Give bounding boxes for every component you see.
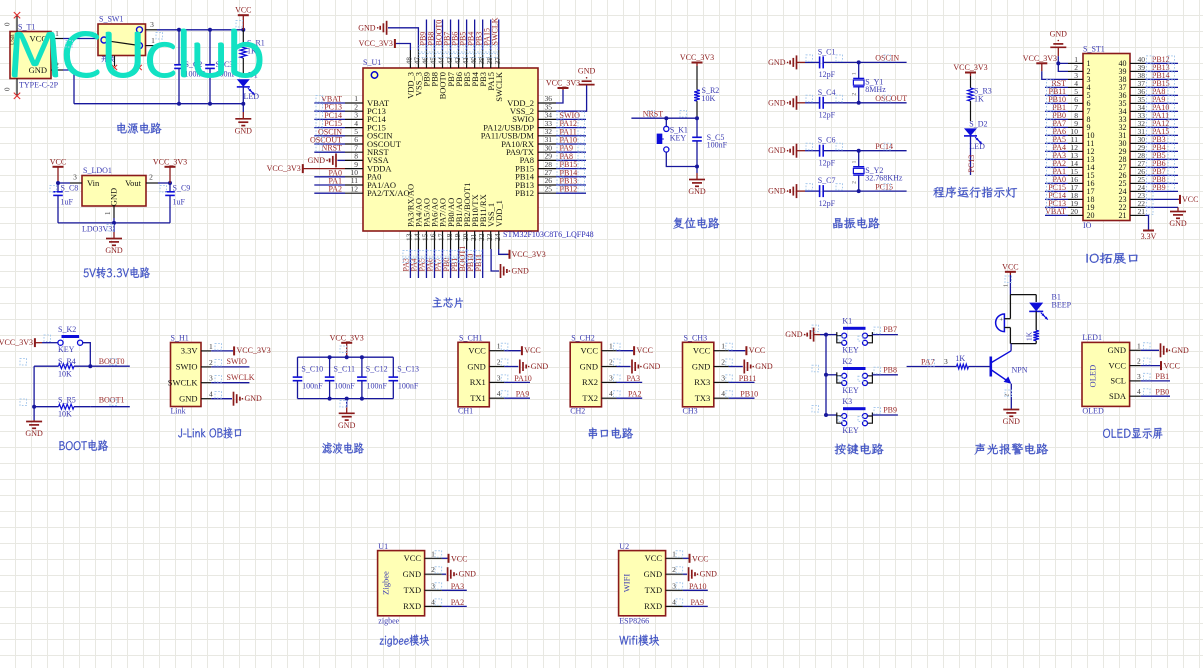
- svg-text:VCC_3V3: VCC_3V3: [153, 157, 187, 166]
- net label PA2: [442, 605, 467, 607]
- svg-text:GND: GND: [692, 361, 710, 371]
- U1 pin 47 VSS_3: [417, 50, 419, 68]
- svg-text:VCC_3V3: VCC_3V3: [546, 79, 580, 88]
- resistor S_R2 10K: [696, 66, 698, 90]
- T1 shield pin bottom with no-ERC cross: [16, 79, 18, 96]
- svg-text:GND: GND: [105, 246, 123, 255]
- MCU U1 STM32F103C8T6 body: [363, 68, 538, 231]
- svg-text:KEY: KEY: [842, 386, 859, 395]
- U1 pin 10 PA0: [345, 176, 363, 178]
- svg-text:GND: GND: [785, 330, 803, 339]
- svg-text:1K: 1K: [955, 354, 965, 363]
- svg-text:VCC_3V3: VCC_3V3: [359, 39, 393, 48]
- svg-text:NPN: NPN: [1012, 365, 1028, 374]
- svg-text:GND: GND: [1169, 219, 1187, 228]
- svg-text:S_LDO1: S_LDO1: [83, 166, 112, 175]
- power GND at H1 pin4: [211, 398, 232, 400]
- net label PB14 (ST1 pin 38): [1145, 78, 1178, 80]
- svg-text:S_C8: S_C8: [61, 184, 79, 193]
- svg-text:KEY: KEY: [58, 345, 75, 354]
- U1 pin 34 SWIO: [538, 118, 556, 120]
- svg-text:SWIO: SWIO: [227, 357, 248, 366]
- svg-text:21: 21: [1119, 211, 1127, 220]
- ST1 pin 27 stub: [1130, 166, 1145, 168]
- top rail filter: [298, 356, 394, 358]
- svg-text:1: 1: [431, 549, 435, 558]
- U1 pin 30 PA9/TX: [538, 151, 556, 153]
- ST1 pin 4 stub: [1068, 86, 1083, 88]
- U1 pin 37 SWCLK: [498, 50, 500, 68]
- svg-text:LDO3V3: LDO3V3: [82, 225, 112, 234]
- svg-text:PB10: PB10: [740, 390, 758, 399]
- svg-text:VCC: VCC: [692, 554, 708, 563]
- push button S_K2 KEY: [42, 342, 58, 344]
- svg-text:3: 3: [497, 373, 501, 382]
- svg-text:GND: GND: [467, 361, 485, 371]
- ST1 pin 15 stub: [1068, 174, 1083, 176]
- module U2 body: [619, 551, 666, 616]
- display LED1 OLED body: [1082, 342, 1130, 406]
- svg-text:CH2: CH2: [570, 406, 585, 415]
- net label PB14 (pin 27): [556, 176, 586, 178]
- svg-text:24: 24: [493, 233, 502, 241]
- svg-text:S_CH2: S_CH2: [571, 333, 595, 342]
- svg-text:1: 1: [1004, 284, 1010, 287]
- svg-text:3: 3: [1137, 372, 1141, 381]
- wire T1 GND down to bottom rail: [63, 70, 74, 104]
- net label PB1: [1141, 380, 1170, 382]
- net label PB9: [872, 414, 898, 416]
- net label PB7 (pin 43): [450, 20, 452, 51]
- svg-text:SWCLK: SWCLK: [227, 373, 255, 382]
- net label PA3: [617, 381, 643, 383]
- U1 pin 20 PB2/BOOT1: [466, 231, 468, 249]
- net label PA15 (pin 38): [490, 20, 492, 51]
- net label PB6 (ST1 pin 27): [1145, 166, 1178, 168]
- net label NRST wire: [631, 117, 697, 119]
- U1 pin 48 VDD_3: [409, 50, 411, 68]
- net stub OSCIN (pin 5): [314, 135, 345, 137]
- svg-text:PA9: PA9: [691, 598, 705, 607]
- ST1 pin 7 stub: [1068, 110, 1083, 112]
- svg-text:2: 2: [852, 93, 858, 96]
- svg-text:SWCLK: SWCLK: [494, 71, 504, 102]
- svg-text:10K: 10K: [58, 409, 72, 418]
- svg-text:SDA: SDA: [1109, 391, 1127, 401]
- svg-text:BEEP: BEEP: [1052, 300, 1072, 309]
- resistor 1K inside B1: [1035, 311, 1037, 330]
- net label OSCIN: [859, 61, 907, 63]
- push button K3 KEY: [826, 414, 837, 416]
- svg-text:PA10: PA10: [514, 374, 532, 383]
- svg-text:GND: GND: [578, 67, 596, 76]
- svg-text:4: 4: [721, 389, 725, 398]
- net label PB13 (ST1 pin 39): [1145, 70, 1178, 72]
- svg-text:S_C7: S_C7: [818, 176, 836, 185]
- ground GND for S_C1: [796, 55, 798, 69]
- svg-text:VCC_3V3: VCC_3V3: [330, 333, 364, 342]
- resistor S_R1 1K: [242, 30, 244, 44]
- net label PB4 (ST1 pin 29): [1145, 150, 1178, 152]
- bottom rail of LDO circuit: [58, 222, 170, 224]
- LDO regulator S_LDO1: [82, 176, 146, 207]
- net label SWIO (pin 34): [556, 118, 586, 120]
- svg-text:12pF: 12pF: [819, 70, 836, 79]
- switch S_SW1: [98, 24, 146, 56]
- svg-text:1: 1: [151, 36, 155, 45]
- svg-text:PB9: PB9: [1152, 183, 1166, 192]
- svg-text:12: 12: [351, 184, 359, 193]
- power VCC_3V3 filter: [341, 342, 352, 344]
- ST1 pin 5 stub: [1068, 94, 1083, 96]
- U1 pin 11 PA1/AO: [345, 184, 363, 186]
- svg-text:PB1: PB1: [1155, 372, 1169, 381]
- svg-text:S_C13: S_C13: [397, 364, 419, 373]
- U1 pin 33 PA12/USB/DP: [538, 127, 556, 129]
- U1 pin 38 PA15: [490, 50, 492, 68]
- svg-text:GND: GND: [755, 362, 773, 371]
- svg-text:4: 4: [672, 597, 676, 606]
- power GND at CH1: [504, 366, 518, 368]
- ground GND reset: [696, 167, 698, 174]
- header S_H1 J-Link: [171, 343, 202, 407]
- svg-text:1: 1: [1137, 341, 1141, 350]
- svg-text:100nF: 100nF: [707, 140, 728, 149]
- speaker symbol of B1: [996, 314, 1005, 332]
- svg-text:S_SW1: S_SW1: [99, 15, 123, 24]
- net label PA12 (pin 33): [556, 127, 586, 129]
- net stub PC13 (pin 2): [314, 110, 345, 112]
- net label SWIO: [211, 366, 249, 368]
- svg-text:IO: IO: [1083, 221, 1092, 230]
- svg-text:PA10: PA10: [689, 582, 707, 591]
- MCUclub logo: [12, 29, 263, 79]
- capacitor S_C2 100nF: [178, 30, 180, 65]
- svg-text:2: 2: [672, 565, 676, 574]
- U1 pin 32 PA11/USB/DM: [538, 135, 556, 137]
- resistor 1K base: [957, 364, 969, 369]
- svg-text:100nF: 100nF: [334, 381, 355, 390]
- svg-text:Vout: Vout: [125, 178, 142, 188]
- power VCC at U1: [442, 557, 448, 559]
- net label PB6 (pin 42): [458, 20, 460, 51]
- svg-text:1: 1: [672, 549, 676, 558]
- power VCC alarm: [1005, 271, 1016, 273]
- svg-text:GND: GND: [643, 362, 661, 371]
- svg-text:TXD: TXD: [404, 585, 421, 595]
- power VCC_3V3 reset: [692, 62, 703, 64]
- ST1 pin 33 stub: [1130, 118, 1145, 120]
- net label RST (ST1 pin 4): [1045, 86, 1068, 88]
- svg-text:S_ST1: S_ST1: [1083, 45, 1105, 54]
- U1 pin 29 PA8: [538, 159, 556, 161]
- wire Vin: [58, 182, 70, 184]
- power GND at CH3: [729, 366, 743, 368]
- net label PB11 (pin 22): [482, 249, 484, 278]
- svg-text:10K: 10K: [58, 369, 72, 378]
- svg-text:VCC: VCC: [451, 554, 467, 563]
- power VCC at CH1: [504, 350, 521, 352]
- U1 pin 24 VDD_1: [498, 231, 500, 249]
- ST1 pin 37 stub: [1130, 86, 1145, 88]
- svg-text:3: 3: [721, 373, 725, 382]
- net label PA10 (ST1 pin 34): [1145, 110, 1178, 112]
- U1 pin 26 PB13: [538, 184, 556, 186]
- U1 pin 13 PA3/RX/AO: [409, 231, 411, 249]
- title alarm circuit: [975, 443, 1049, 454]
- net label PA9: [504, 397, 530, 399]
- svg-text:S_U1: S_U1: [363, 58, 381, 67]
- svg-text:VBAT: VBAT: [1045, 207, 1066, 216]
- svg-text:3.3V: 3.3V: [181, 346, 199, 356]
- svg-text:VCC: VCC: [1164, 361, 1180, 370]
- resistor S_R3 1K: [970, 76, 972, 88]
- U1 pin 25 PB12: [538, 192, 556, 194]
- svg-text:GND: GND: [1108, 345, 1126, 355]
- power GND at U1: [442, 573, 446, 575]
- power VCC at LDO input: [53, 166, 64, 168]
- svg-text:25: 25: [545, 184, 553, 193]
- capacitor S_C11 100nF: [329, 357, 331, 377]
- ST1 pin 22 stub: [1130, 206, 1145, 208]
- svg-text:SWCLK: SWCLK: [491, 17, 500, 45]
- svg-text:12pF: 12pF: [819, 199, 836, 208]
- U1 pin 28 PB15: [538, 168, 556, 170]
- net label PA8 (pin 29): [556, 159, 586, 161]
- switch pin1 stub: [146, 45, 158, 47]
- power VCC_3V3 at U1 pin9 VDDA: [302, 164, 304, 173]
- svg-text:LED: LED: [244, 92, 260, 101]
- net label PA10 (pin 31): [556, 143, 586, 145]
- svg-text:Link: Link: [171, 407, 186, 416]
- svg-text:VCC: VCC: [468, 346, 486, 356]
- svg-text:0: 0: [4, 22, 12, 26]
- wire key2 to BOOT0: [83, 343, 91, 367]
- svg-text:12pF: 12pF: [819, 159, 836, 168]
- ST1 pin 39 stub: [1130, 70, 1145, 72]
- net label PA10: [683, 589, 708, 591]
- net label SWCLK (pin 37): [498, 20, 500, 51]
- LED inside B1: [1029, 303, 1043, 312]
- ST1 pin 28 stub: [1130, 158, 1145, 160]
- svg-text:VCC: VCC: [581, 346, 599, 356]
- ST1 pin 36 stub: [1130, 94, 1145, 96]
- bottom rail filter: [298, 398, 394, 400]
- ST1 pin 2 stub: [1068, 70, 1083, 72]
- LDO pin2 stub: [146, 182, 158, 184]
- svg-text:OSCOUT: OSCOUT: [875, 94, 907, 103]
- U1 pin 7 NRST: [345, 151, 363, 153]
- header S_CH2 body: [570, 342, 601, 407]
- svg-text:GND: GND: [644, 569, 662, 579]
- ground GND for S_C6: [796, 144, 798, 158]
- ground GND for S_C4: [796, 96, 798, 110]
- svg-text:PA2/TX/AO: PA2/TX/AO: [367, 188, 410, 198]
- svg-text:SCL: SCL: [1110, 376, 1126, 386]
- svg-text:KEY: KEY: [842, 346, 859, 355]
- switch label kai-guan: [101, 56, 114, 62]
- ST1 pin 17 stub: [1068, 190, 1083, 192]
- svg-text:RX3: RX3: [694, 377, 710, 387]
- net label PB15 (ST1 pin 37): [1145, 86, 1178, 88]
- net label PB9 (pin 46): [425, 20, 427, 51]
- capacitor S_C5 100nF: [696, 118, 698, 137]
- svg-text:WIFI: WIFI: [622, 574, 632, 593]
- svg-text:K1: K1: [842, 317, 852, 326]
- net label PA6 (pin 16): [433, 249, 435, 278]
- ST1 pin 40 stub: [1130, 62, 1145, 64]
- svg-text:GND: GND: [338, 421, 356, 430]
- svg-text:VCC: VCC: [524, 346, 540, 355]
- svg-text:3: 3: [209, 374, 213, 383]
- title main chip: [433, 297, 464, 308]
- ST1 pin 29 stub: [1130, 150, 1145, 152]
- ground GND of power circuit: [242, 104, 244, 112]
- svg-text:S_K2: S_K2: [58, 325, 76, 334]
- switch unused pins with no-ERC crosses: [114, 56, 116, 67]
- U1 pin 46 PB9: [425, 50, 427, 68]
- svg-text:S_C4: S_C4: [818, 88, 836, 97]
- U1 pin 23 VSS_1: [490, 231, 492, 249]
- net label PB0: [1141, 395, 1170, 397]
- svg-text:PB12: PB12: [515, 188, 534, 198]
- svg-text:PB8: PB8: [883, 365, 897, 374]
- resistor S_R5 10K: [34, 406, 58, 408]
- ST1 pin 9 stub: [1068, 126, 1083, 128]
- U1 pin 41 PB5: [466, 50, 468, 68]
- ST1 pin 3 stub: [1068, 78, 1083, 80]
- emitter wire to ground: [1010, 384, 1012, 409]
- title filter circuit: [322, 442, 363, 453]
- T1 pin1 stub: [51, 38, 63, 40]
- svg-text:S_T1: S_T1: [18, 23, 35, 32]
- svg-text:GND: GND: [768, 98, 786, 107]
- svg-text:8MHz: 8MHz: [865, 85, 886, 94]
- net label PB10: [729, 397, 755, 399]
- ground GND boot: [33, 420, 35, 422]
- power VCC top of rail: [238, 14, 249, 16]
- net label PC13 wire: [970, 136, 972, 175]
- svg-text:GND: GND: [29, 65, 47, 75]
- svg-text:VCC: VCC: [404, 553, 422, 563]
- svg-text:GND: GND: [580, 361, 598, 371]
- power GND at CH2: [617, 366, 631, 368]
- svg-text:VDD_1: VDD_1: [494, 200, 504, 227]
- svg-text:GND: GND: [403, 569, 421, 579]
- net stub PA2/TX/AO (pin 12): [314, 192, 345, 194]
- net label PA7 base wire: [907, 366, 957, 368]
- svg-text:GND: GND: [25, 429, 43, 438]
- svg-text:0: 0: [4, 87, 12, 91]
- USB connector S_T1 (TYPE-C-2P): [10, 32, 51, 79]
- net label PB1 (pin 19): [458, 249, 460, 278]
- net label PB5 (pin 41): [466, 20, 468, 51]
- U1 pin 36 VDD_2: [538, 102, 556, 104]
- svg-text:PA2: PA2: [451, 598, 465, 607]
- module U1 body: [378, 551, 425, 616]
- svg-text:1: 1: [852, 160, 858, 163]
- net label OSCOUT: [859, 102, 907, 104]
- svg-text:10K: 10K: [702, 94, 716, 103]
- svg-text:2: 2: [1137, 357, 1141, 366]
- svg-text:1: 1: [852, 72, 858, 75]
- svg-text:GND: GND: [235, 126, 253, 135]
- net label PA7 (ST1 pin 9): [1045, 126, 1068, 128]
- svg-text:KEY: KEY: [842, 426, 859, 435]
- U1 pin 22 PB11/RX: [482, 231, 484, 249]
- svg-text:RXD: RXD: [403, 601, 421, 611]
- svg-text:S_H1: S_H1: [171, 334, 189, 343]
- LDO pin3 stub: [70, 182, 82, 184]
- power GND at U1 pin8 VSSA: [337, 159, 345, 161]
- svg-text:3: 3: [73, 173, 77, 182]
- header S_ST1 body: [1083, 54, 1130, 221]
- capacitor S_C7 12pF: [805, 190, 820, 192]
- svg-text:GND: GND: [245, 394, 263, 403]
- ST1 pin 1 stub: [1068, 62, 1083, 64]
- net stub NRST (pin 7): [314, 151, 345, 153]
- net label PB11 (ST1 pin 5): [1045, 94, 1068, 96]
- ST1 pin 13 stub: [1068, 158, 1083, 160]
- svg-text:4: 4: [431, 597, 435, 606]
- net label PA12 (ST1 pin 32): [1145, 126, 1178, 128]
- wire Vout: [158, 182, 170, 184]
- svg-text:RXD: RXD: [644, 601, 662, 611]
- power VCC_3V3 indicator: [965, 72, 976, 74]
- svg-text:3: 3: [944, 357, 948, 366]
- svg-text:NRST: NRST: [643, 110, 664, 119]
- svg-text:100nF: 100nF: [367, 381, 388, 390]
- svg-text:20: 20: [1071, 207, 1079, 216]
- svg-text:2: 2: [852, 181, 858, 184]
- svg-text:2: 2: [497, 358, 501, 367]
- title program run indicator: [933, 186, 1017, 197]
- T1 pin2 stub: [51, 69, 63, 71]
- svg-text:SWIO: SWIO: [176, 362, 198, 372]
- capacitor S_C9 1uF: [169, 183, 171, 192]
- svg-text:100nF: 100nF: [302, 381, 323, 390]
- svg-text:TX2: TX2: [582, 393, 598, 403]
- net label PB3 (pin 39): [482, 20, 484, 51]
- U1 pin 4 PC15: [345, 127, 363, 129]
- svg-text:VCC: VCC: [693, 346, 711, 356]
- ST1 pin 19 stub: [1068, 206, 1083, 208]
- net label PB5 (ST1 pin 28): [1145, 158, 1178, 160]
- svg-text:S_C1: S_C1: [818, 47, 836, 56]
- header S_CH3 body: [683, 342, 714, 407]
- svg-text:GND: GND: [768, 146, 786, 155]
- svg-text:1uF: 1uF: [173, 198, 186, 207]
- net label PB7 (ST1 pin 26): [1145, 174, 1178, 176]
- ST1 pin 11 stub: [1068, 142, 1083, 144]
- U1 pin 1 VBAT: [345, 102, 363, 104]
- svg-text:SWCLK: SWCLK: [168, 378, 199, 388]
- net label PA7 (pin 17): [442, 249, 444, 278]
- net label PA5 (pin 15): [425, 249, 427, 278]
- svg-text:S_C9: S_C9: [173, 184, 191, 193]
- U1 pin 8 VSSA: [345, 159, 363, 161]
- svg-text:PB9: PB9: [883, 406, 897, 415]
- svg-text:GND: GND: [531, 362, 549, 371]
- U1 pin 27 PB14: [538, 176, 556, 178]
- net label PA0 (ST1 pin 16): [1045, 182, 1068, 184]
- net label PB8 (pin 45): [433, 20, 435, 51]
- power VCC at U2: [683, 557, 689, 559]
- svg-text:S_C11: S_C11: [334, 364, 356, 373]
- svg-text:S_R5: S_R5: [58, 395, 76, 404]
- wire gnd to pin2: [1058, 63, 1068, 71]
- title power circuit: [117, 123, 161, 134]
